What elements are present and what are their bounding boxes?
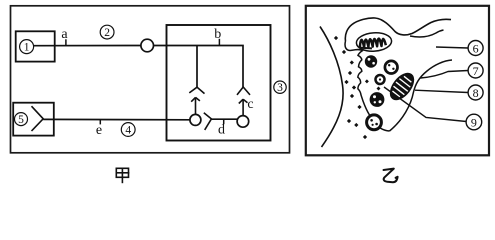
circled label 9 xyxy=(466,114,482,130)
node d tick xyxy=(223,119,225,124)
effector fork symbol xyxy=(32,106,44,131)
right upward arrow (labelled c) xyxy=(239,99,248,115)
wire from cell body into inner box, to top-right corner xyxy=(154,46,244,88)
circled label 1 xyxy=(20,40,34,54)
mitochondrion M1 xyxy=(356,32,392,53)
left synapse fork xyxy=(189,87,204,93)
wire from box1 to cell body circle xyxy=(34,45,141,47)
svg-text:8: 8 xyxy=(473,86,479,100)
svg-text:d: d xyxy=(218,123,225,138)
circled label 2 xyxy=(100,25,114,39)
svg-text:6: 6 xyxy=(473,41,479,55)
node a tick xyxy=(65,39,67,45)
circled label 4 xyxy=(121,123,135,137)
svg-text:7: 7 xyxy=(473,64,479,78)
leader line to 8 xyxy=(415,90,468,92)
terminal right edge sweep xyxy=(390,60,453,131)
node b tick xyxy=(218,39,220,46)
svg-text:5: 5 xyxy=(18,114,24,126)
svg-text:9: 9 xyxy=(471,115,477,129)
circled label 7 xyxy=(468,63,483,78)
right cell body circle xyxy=(237,116,249,128)
caption jia (CJK drawn as strokes) xyxy=(116,168,128,182)
svg-text:c: c xyxy=(247,97,253,112)
synaptic terminal top outline xyxy=(345,18,451,41)
neurotransmitter dots in cleft xyxy=(334,36,381,139)
leader line to 9 (bent) xyxy=(384,87,466,122)
circled label 8 xyxy=(468,85,483,100)
svg-text:b: b xyxy=(214,27,221,42)
svg-text:3: 3 xyxy=(277,82,283,94)
node e tick xyxy=(99,120,101,125)
afferent neuron cell body circle xyxy=(141,39,154,52)
axon lower membrane line xyxy=(410,30,444,37)
inner box (nerve centre) xyxy=(167,25,271,141)
right panel border xyxy=(306,6,489,156)
caption yi (CJK drawn as stroke path) xyxy=(384,169,398,183)
synaptic vesicles xyxy=(365,55,398,129)
right synapse fork xyxy=(237,87,250,95)
circled label 5 xyxy=(15,113,28,127)
svg-text:e: e xyxy=(96,123,102,138)
left branch wire down xyxy=(196,46,198,88)
d wire xyxy=(211,118,237,120)
outer box of left panel xyxy=(11,6,290,153)
svg-text:a: a xyxy=(61,27,68,42)
svg-text:4: 4 xyxy=(125,125,131,137)
bottom wire from effector to left cell xyxy=(43,118,190,120)
left motor cell body circle xyxy=(190,114,201,125)
circled label 6 xyxy=(468,41,483,56)
presynaptic wavy membrane xyxy=(345,41,389,131)
mitochondrion M2 xyxy=(386,70,418,104)
leader line to 6 xyxy=(436,47,468,48)
leader line to 7 with curved pointer xyxy=(421,71,469,79)
box around node 1 (receptor box) xyxy=(16,31,55,61)
svg-text:2: 2 xyxy=(104,27,110,39)
circled label 3 xyxy=(274,81,286,94)
fork of d-wire clasping left cell xyxy=(204,113,212,130)
postsynaptic membrane arc xyxy=(320,27,343,148)
left upward arrow into fork xyxy=(191,97,200,114)
svg-text:1: 1 xyxy=(24,42,30,54)
box around node 5 (effector box) xyxy=(13,103,54,136)
